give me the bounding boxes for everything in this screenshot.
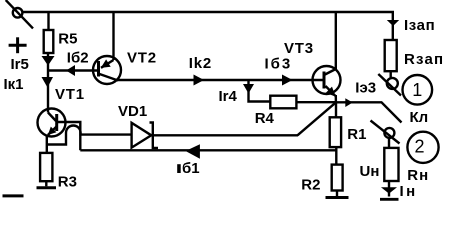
svg-text:VD1: VD1 <box>118 103 147 120</box>
wire VD1 cathode to R4 node <box>153 134 298 136</box>
resistor R5 <box>44 30 54 53</box>
svg-text:Iэ3: Iэ3 <box>355 80 376 97</box>
wire VT1 emitter to VD1 with hop <box>47 126 132 145</box>
wire VT1 base to Ib1 line <box>58 122 81 150</box>
svg-text:б1: б1 <box>182 160 200 177</box>
plus terminal <box>9 37 27 53</box>
wire base VT2 (Ib2) <box>48 69 99 71</box>
diode VD1 <box>132 123 158 149</box>
svg-text:Iб2: Iб2 <box>67 50 89 67</box>
wire rail to VT2 emitter <box>112 12 114 60</box>
wire node A to R1 <box>335 102 337 117</box>
wire Ib1 feedback line <box>80 149 336 151</box>
current arrow Ib1 <box>186 144 200 159</box>
svg-text:Iк1: Iк1 <box>4 76 24 93</box>
terminal circle 2 <box>407 132 438 163</box>
wire Rn down <box>388 181 390 197</box>
wire R5 to VT1 collector <box>47 53 49 109</box>
wire branch to R4 <box>249 80 271 102</box>
current arrow Izap <box>387 20 399 26</box>
svg-text:Uн: Uн <box>360 163 380 180</box>
current arrow Ik2 <box>194 75 205 86</box>
switch Kl strike <box>371 121 400 144</box>
svg-text:Rзап: Rзап <box>404 51 444 68</box>
svg-text:R3: R3 <box>58 174 77 191</box>
minus terminal <box>3 194 24 197</box>
ground under R3 <box>37 186 57 189</box>
label Ib1 <box>177 160 199 177</box>
transistor VT2 <box>93 56 121 84</box>
wire diagonal VD1 to node A <box>298 102 337 135</box>
wire R3 to ground <box>45 181 47 186</box>
wire Ik2 collector line to VT3 base <box>117 79 324 81</box>
svg-text:VT1: VT1 <box>55 86 85 103</box>
switch 1 contact ring <box>387 78 398 89</box>
current arrow Ir4 <box>243 84 254 94</box>
wire R4 to node A <box>296 101 336 103</box>
terminal circle 1 <box>403 75 433 105</box>
switch S1 top-left blade <box>6 0 33 28</box>
svg-text:1: 1 <box>412 80 422 100</box>
svg-text:R2: R2 <box>301 177 320 194</box>
current arrow Ib3 <box>282 75 293 86</box>
ground under Rn <box>380 198 399 201</box>
wire rail corner to Rzap <box>392 12 394 40</box>
wire rail to R5 <box>47 12 49 30</box>
ground under R2 <box>326 196 349 199</box>
switch S1 top-left contact ring <box>13 8 23 18</box>
wire rail to VT3 collector <box>335 12 337 69</box>
svg-text:VT3: VT3 <box>284 40 314 57</box>
svg-text:R1: R1 <box>347 126 366 143</box>
wire VT3 emitter to node A <box>335 95 338 102</box>
svg-text:2: 2 <box>415 137 425 157</box>
svg-text:Iзап: Iзап <box>404 17 435 34</box>
wire R1 to R2 <box>335 147 337 165</box>
current arrow Ib2 <box>66 65 75 76</box>
resistor R1 <box>330 117 341 147</box>
current arrow In <box>381 187 397 193</box>
svg-text:Iб3: Iб3 <box>265 56 293 73</box>
resistor Rn <box>384 148 398 181</box>
current arrow Ie3 <box>345 98 352 107</box>
wire VT1 emitter down <box>46 137 48 153</box>
svg-text:Iн: Iн <box>400 183 418 200</box>
svg-text:Ir5: Ir5 <box>11 56 29 73</box>
transistor VT3 <box>313 66 341 97</box>
resistor R2 <box>332 165 343 191</box>
svg-text:Ir4: Ir4 <box>219 88 238 105</box>
wire Rzap to switch 1 <box>390 71 392 78</box>
transistor VT1 <box>38 109 66 137</box>
svg-text:Кл: Кл <box>410 109 429 126</box>
svg-text:VT2: VT2 <box>127 50 157 67</box>
svg-text:R5: R5 <box>58 31 77 48</box>
current arrow Ik1 <box>42 77 54 88</box>
wire top supply rail <box>22 11 394 13</box>
svg-text:R4: R4 <box>255 110 275 127</box>
resistor R4 <box>270 96 296 109</box>
switch 1 blade <box>378 74 401 96</box>
svg-text:Rн: Rн <box>407 167 429 184</box>
resistor R3 <box>40 153 52 181</box>
wire Kl to Rn <box>388 138 390 148</box>
wire node A to switch Kl <box>336 102 402 122</box>
resistor Rzap <box>385 40 397 71</box>
wire R2 to ground <box>336 191 338 197</box>
switch Kl contact ring <box>384 128 394 138</box>
svg-text:Ik2: Ik2 <box>189 55 212 72</box>
current arrow Ir5 <box>42 56 55 66</box>
